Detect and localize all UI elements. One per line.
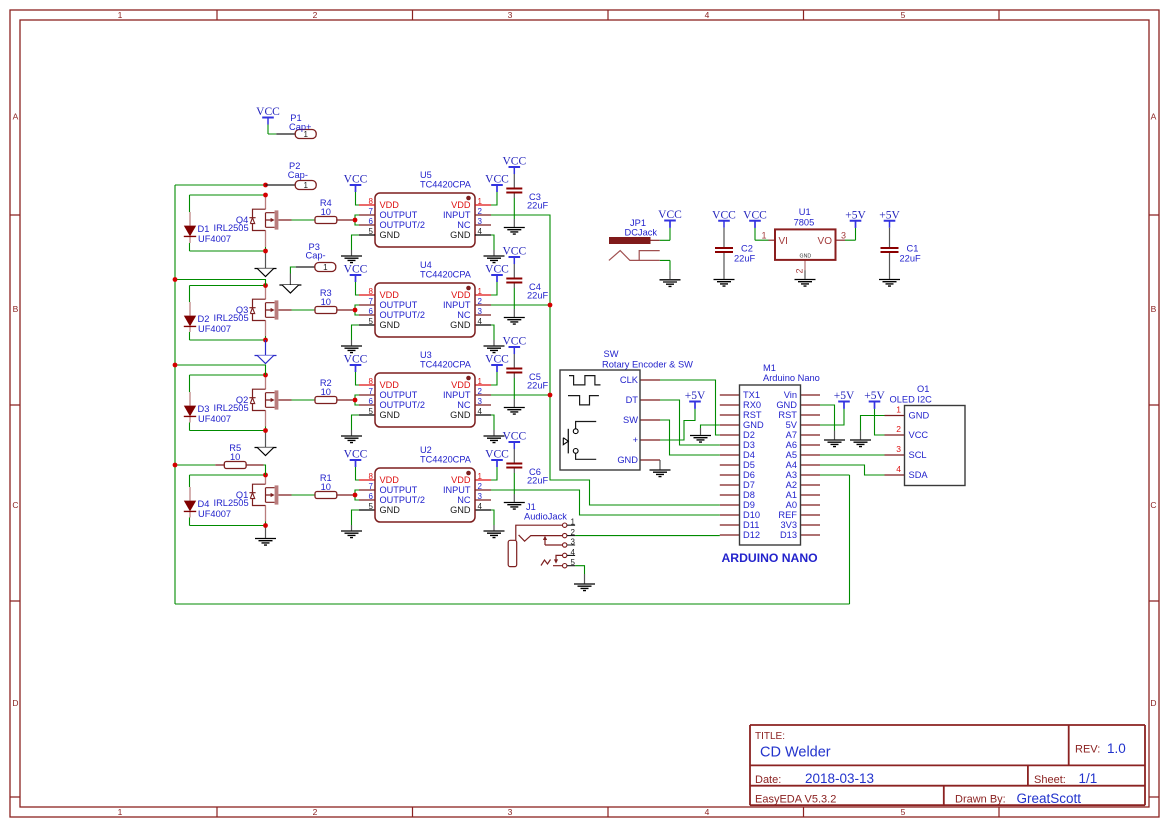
svg-text:OUTPUT/2: OUTPUT/2 [380,495,425,505]
svg-text:D4: D4 [743,450,755,460]
svg-text:5: 5 [369,317,374,326]
svg-text:1: 1 [478,377,483,386]
svg-text:VDD: VDD [451,380,471,390]
svg-text:5: 5 [369,502,374,511]
svg-text:UF4007: UF4007 [198,324,231,334]
svg-text:4: 4 [478,407,483,416]
svg-text:7: 7 [369,297,374,306]
svg-text:SCL: SCL [909,450,927,460]
svg-text:Cap-: Cap- [288,170,308,180]
svg-text:VDD: VDD [380,290,400,300]
svg-text:C: C [12,500,18,510]
svg-text:A2: A2 [786,480,797,490]
svg-text:VDD: VDD [380,380,400,390]
svg-text:D9: D9 [743,500,755,510]
svg-text:3: 3 [896,444,901,454]
svg-text:VO: VO [818,236,833,247]
svg-text:TC4420CPA: TC4420CPA [420,270,472,280]
svg-text:Drawn By:: Drawn By: [955,794,1006,806]
svg-text:A: A [1151,112,1157,122]
svg-text:4: 4 [705,10,710,20]
svg-text:U1: U1 [799,207,811,217]
svg-text:10: 10 [321,387,331,397]
svg-text:A: A [13,112,19,122]
svg-text:M1: M1 [763,363,776,373]
svg-text:1/1: 1/1 [1079,771,1098,786]
svg-text:GND: GND [909,411,930,421]
svg-text:VI: VI [779,236,788,247]
svg-text:CLK: CLK [620,375,639,385]
svg-text:VDD: VDD [451,290,471,300]
svg-text:VCC: VCC [743,209,767,221]
svg-text:NC: NC [457,310,471,320]
svg-text:OUTPUT/2: OUTPUT/2 [380,400,425,410]
svg-text:RST: RST [778,410,797,420]
svg-text:Sheet:: Sheet: [1034,774,1066,786]
svg-text:VDD: VDD [451,475,471,485]
svg-text:OUTPUT/2: OUTPUT/2 [380,310,425,320]
svg-text:+5V: +5V [834,390,855,402]
svg-text:2: 2 [478,297,483,306]
svg-text:4: 4 [705,807,710,817]
svg-text:UF4007: UF4007 [198,414,231,424]
svg-text:D: D [1150,698,1156,708]
svg-text:22uF: 22uF [527,291,549,301]
svg-text:1: 1 [478,472,483,481]
svg-text:22uF: 22uF [900,254,922,264]
svg-text:U5: U5 [420,170,432,180]
svg-text:D11: D11 [743,520,759,530]
svg-text:TC4420CPA: TC4420CPA [420,360,472,370]
svg-text:UF4007: UF4007 [198,234,231,244]
svg-text:VCC: VCC [485,449,509,461]
svg-text:VCC: VCC [658,209,682,221]
svg-text:VCC: VCC [502,336,526,348]
svg-text:VCC: VCC [485,264,509,276]
svg-text:8: 8 [369,287,374,296]
svg-text:U2: U2 [420,445,432,455]
svg-text:VDD: VDD [451,200,471,210]
svg-text:GreatScott: GreatScott [1017,791,1082,806]
svg-text:22uF: 22uF [527,381,549,391]
svg-text:A6: A6 [786,440,797,450]
svg-text:OUTPUT: OUTPUT [380,300,418,310]
svg-text:7: 7 [369,482,374,491]
svg-text:GND: GND [380,230,401,240]
svg-text:A5: A5 [786,450,797,460]
svg-text:+5V: +5V [845,209,866,221]
svg-text:10: 10 [321,207,331,217]
svg-text:D3: D3 [198,404,210,414]
svg-text:VCC: VCC [344,264,368,276]
svg-text:B: B [1151,304,1157,314]
svg-text:TC4420CPA: TC4420CPA [420,180,472,190]
svg-text:B: B [13,304,19,314]
svg-text:4: 4 [896,464,901,474]
svg-text:O1: O1 [917,384,929,394]
svg-text:Cap-: Cap- [306,251,326,261]
svg-text:CD Welder: CD Welder [760,745,831,761]
svg-text:TITLE:: TITLE: [755,731,785,742]
svg-text:REV:: REV: [1075,744,1100,756]
svg-text:SDA: SDA [909,470,929,480]
svg-text:VDD: VDD [380,200,400,210]
svg-text:3: 3 [478,492,483,501]
svg-text:D8: D8 [743,490,755,500]
svg-text:GND: GND [776,400,797,410]
svg-text:Vin: Vin [784,390,797,400]
svg-text:NC: NC [457,220,471,230]
svg-text:8: 8 [369,377,374,386]
svg-text:VCC: VCC [502,431,526,443]
svg-text:GND: GND [450,505,471,515]
svg-text:10: 10 [230,452,240,462]
svg-text:VCC: VCC [344,449,368,461]
svg-text:5: 5 [369,227,374,236]
svg-text:D2: D2 [743,430,755,440]
svg-text:+5V: +5V [879,209,900,221]
svg-text:3V3: 3V3 [780,520,797,530]
svg-text:D4: D4 [198,499,210,509]
svg-text:DT: DT [626,395,639,405]
svg-text:7805: 7805 [794,217,815,227]
svg-text:Cap+: Cap+ [289,122,311,132]
svg-text:DCJack: DCJack [625,227,658,237]
svg-text:3: 3 [508,10,513,20]
svg-text:SW: SW [604,349,619,359]
svg-text:SW: SW [623,415,638,425]
svg-text:A0: A0 [786,500,797,510]
svg-text:3: 3 [478,217,483,226]
svg-text:INPUT: INPUT [443,485,471,495]
svg-text:OUTPUT: OUTPUT [380,390,418,400]
svg-text:TX1: TX1 [743,390,760,400]
svg-text:3: 3 [841,230,846,240]
svg-text:VCC: VCC [485,354,509,366]
svg-text:4: 4 [478,227,483,236]
svg-text:10: 10 [321,297,331,307]
svg-text:D13: D13 [780,530,797,540]
svg-text:TC4420CPA: TC4420CPA [420,455,472,465]
svg-text:2: 2 [795,268,805,273]
svg-text:GND: GND [380,410,401,420]
svg-text:6: 6 [369,307,374,316]
svg-text:GND: GND [450,410,471,420]
svg-text:6: 6 [369,492,374,501]
svg-text:A3: A3 [786,470,797,480]
svg-text:5V: 5V [786,420,798,430]
svg-text:1: 1 [478,287,483,296]
svg-text:INPUT: INPUT [443,390,471,400]
svg-text:22uF: 22uF [527,476,549,486]
svg-text:NC: NC [457,400,471,410]
svg-text:VCC: VCC [502,246,526,258]
svg-text:1: 1 [761,230,766,240]
svg-text:22uF: 22uF [527,201,549,211]
svg-text:3: 3 [508,807,513,817]
svg-text:D6: D6 [743,470,755,480]
svg-text:3: 3 [478,397,483,406]
svg-text:1: 1 [118,10,123,20]
svg-text:ARDUINO NANO: ARDUINO NANO [722,551,818,565]
svg-text:RST: RST [743,410,762,420]
svg-text:GND: GND [380,505,401,515]
svg-text:Rotary Encoder & SW: Rotary Encoder & SW [602,359,693,369]
svg-text:2: 2 [478,387,483,396]
svg-text:OUTPUT: OUTPUT [380,210,418,220]
svg-text:REF: REF [778,510,797,520]
svg-text:GND: GND [800,253,812,259]
svg-text:AudioJack: AudioJack [524,512,567,522]
svg-text:VCC: VCC [485,174,509,186]
svg-text:D12: D12 [743,530,760,540]
svg-text:OUTPUT: OUTPUT [380,485,418,495]
svg-text:Q1: Q1 [236,490,248,500]
svg-text:+5V: +5V [685,390,706,402]
svg-text:C2: C2 [741,244,753,254]
svg-text:Q4: Q4 [236,215,248,225]
svg-text:8: 8 [369,472,374,481]
svg-text:Date:: Date: [755,774,781,786]
svg-text:GND: GND [380,320,401,330]
svg-text:1: 1 [118,807,123,817]
svg-text:INPUT: INPUT [443,300,471,310]
svg-text:D1: D1 [198,224,210,234]
svg-text:UF4007: UF4007 [198,509,231,519]
svg-text:1.0: 1.0 [1107,741,1126,756]
svg-text:2: 2 [478,482,483,491]
svg-text:D10: D10 [743,510,760,520]
svg-text:EasyEDA V5.3.2: EasyEDA V5.3.2 [755,794,836,806]
svg-text:6: 6 [369,217,374,226]
svg-text:D7: D7 [743,480,755,490]
svg-text:A4: A4 [786,460,797,470]
svg-text:U3: U3 [420,350,432,360]
svg-text:D5: D5 [743,460,755,470]
svg-text:2: 2 [313,10,318,20]
svg-text:VCC: VCC [344,354,368,366]
svg-text:Q3: Q3 [236,305,248,315]
svg-text:D3: D3 [743,440,755,450]
svg-text:GND: GND [743,420,764,430]
svg-text:22uF: 22uF [734,254,756,264]
svg-text:D: D [12,698,18,708]
svg-text:+: + [633,435,638,445]
svg-text:A1: A1 [786,490,797,500]
svg-text:5: 5 [901,807,906,817]
svg-text:6: 6 [369,397,374,406]
svg-text:D2: D2 [198,314,210,324]
svg-text:10: 10 [321,482,331,492]
svg-text:4: 4 [478,502,483,511]
svg-text:1: 1 [478,197,483,206]
svg-text:VCC: VCC [502,156,526,168]
svg-text:U4: U4 [420,260,432,270]
svg-text:5: 5 [369,407,374,416]
svg-text:C: C [1150,500,1156,510]
svg-text:INPUT: INPUT [443,210,471,220]
svg-text:VCC: VCC [256,106,280,118]
svg-text:GND: GND [450,230,471,240]
svg-text:OLED I2C: OLED I2C [890,394,933,404]
svg-text:7: 7 [369,387,374,396]
svg-text:+5V: +5V [864,390,885,402]
svg-text:5: 5 [901,10,906,20]
svg-text:2: 2 [896,424,901,434]
svg-text:NC: NC [457,495,471,505]
svg-text:GND: GND [617,455,638,465]
svg-text:2: 2 [478,207,483,216]
svg-text:RX0: RX0 [743,400,761,410]
svg-text:2: 2 [313,807,318,817]
svg-text:Arduino Nano: Arduino Nano [763,373,820,383]
svg-text:1: 1 [896,405,901,415]
svg-text:GND: GND [450,320,471,330]
svg-text:A7: A7 [786,430,797,440]
svg-text:J1: J1 [526,502,536,512]
svg-text:2018-03-13: 2018-03-13 [805,771,874,786]
svg-text:C1: C1 [907,244,919,254]
svg-text:VDD: VDD [380,475,400,485]
svg-text:VCC: VCC [909,430,929,440]
svg-text:VCC: VCC [344,174,368,186]
svg-text:8: 8 [369,197,374,206]
svg-text:Q2: Q2 [236,395,248,405]
svg-text:4: 4 [478,317,483,326]
svg-text:1: 1 [323,263,328,272]
svg-text:VCC: VCC [712,209,736,221]
svg-text:1: 1 [303,181,308,190]
svg-text:7: 7 [369,207,374,216]
svg-text:OUTPUT/2: OUTPUT/2 [380,220,425,230]
svg-text:3: 3 [478,307,483,316]
